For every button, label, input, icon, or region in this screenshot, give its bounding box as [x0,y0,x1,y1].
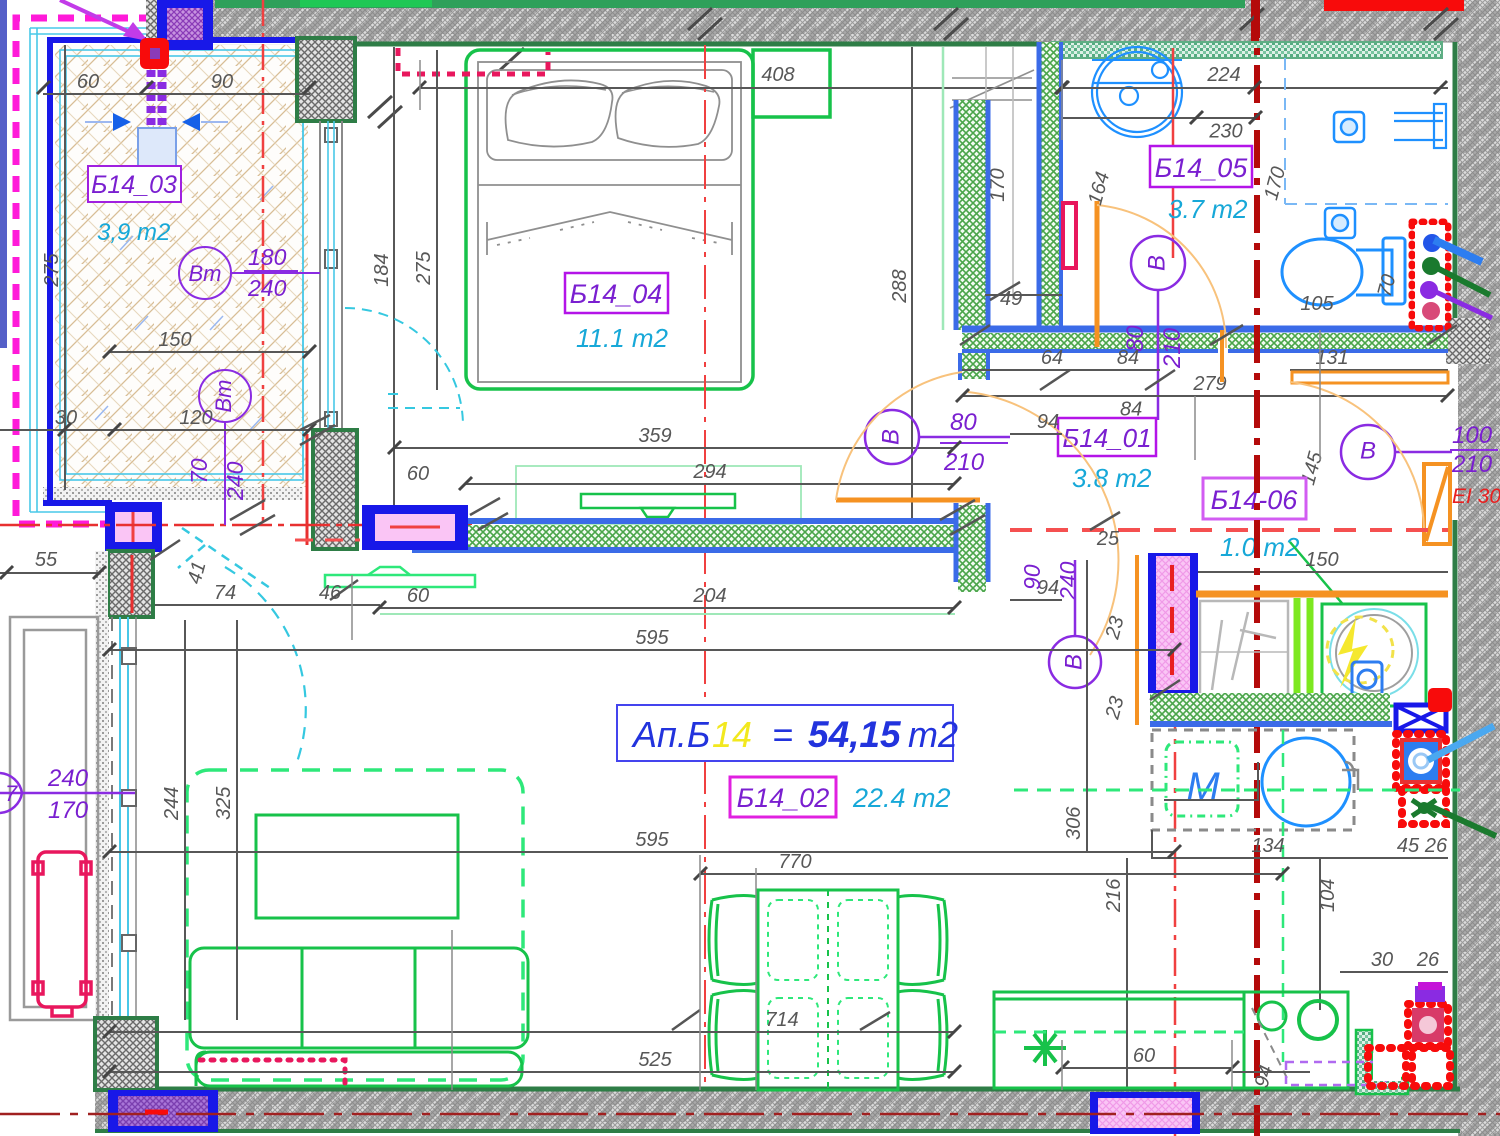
orange shelf right [1292,372,1448,383]
blue purple box bottom left [108,1090,218,1132]
dim 714 [110,1031,955,1033]
assorted dim ticks [103,81,1454,1078]
svg-text:60: 60 [1133,1045,1155,1067]
magenta dashed frame [16,18,155,524]
kitchen dashed mid line [994,1031,1244,1034]
red top bar [1324,0,1464,11]
red box flue [140,38,169,69]
red dashed line hall [1010,528,1448,532]
orange door leaf bathroom [1095,201,1100,347]
svg-text:3.8 m2: 3.8 m2 [1072,463,1152,493]
pink box bottom middle [1090,1092,1200,1134]
svg-text:240: 240 [222,461,248,501]
svg-text:45: 45 [1397,835,1420,857]
hob asterisk [1024,1030,1066,1066]
svg-text:Б14_03: Б14_03 [91,171,177,199]
dim 294 [466,483,955,485]
blue vent arrows [113,113,200,152]
red axis horizontal left [0,524,472,527]
label Б14_06 [1203,478,1306,519]
dim 74 46 [155,604,380,606]
balcony floor herringbone [55,45,308,487]
green dashed counter line [1014,789,1460,792]
svg-text:84: 84 [1117,347,1139,369]
svg-text:105: 105 [1300,293,1334,315]
svg-text:Б14_04: Б14_04 [570,279,663,309]
svg-text:770: 770 [778,851,811,873]
svg-text:70: 70 [186,458,212,484]
svg-text:595: 595 [635,627,669,649]
balcony stucco bottom band [43,487,303,500]
dark red axis horizontal bottom [0,1113,1500,1116]
entrance door arc [1290,382,1424,528]
bedroom green room outline [466,50,753,389]
balcony top wall speckle [146,44,310,62]
wall block balcony-bedroom bottom [313,430,357,549]
purple dashed column below red box [151,70,162,140]
washing machine Б14_06 [1322,604,1426,706]
svg-text:m2: m2 [908,714,958,755]
toilet [1282,238,1405,305]
red box top corner [1428,688,1452,712]
svg-text:64: 64 [1041,347,1063,369]
svg-text:90: 90 [1019,564,1045,590]
svg-text:240: 240 [47,765,89,792]
crimson heating pipe bedroom [398,48,548,74]
svg-text:26: 26 [1416,949,1440,971]
wall block balcony-bedroom top [297,38,355,121]
dim 49/64/84 cluster [985,294,1062,296]
top band tick clusters [368,8,1458,128]
dim 359 [395,447,955,449]
supply arrows lower right [1428,726,1494,760]
dim 150 [110,351,310,353]
carpet dashed living room [187,770,523,1080]
dim 60 / 90 top [43,93,310,95]
B circle bathroom [1131,236,1185,420]
wall block bottom left corner [95,1018,157,1090]
svg-text:Вт: Вт [211,380,236,413]
pillow 1 [506,80,613,146]
green hatch band below shower [1150,693,1392,724]
svg-text:M: M [1186,765,1220,809]
cyan lines left of balcony [30,28,160,512]
svg-text:150: 150 [1305,549,1338,571]
svg-text:275: 275 [41,252,63,287]
wall band bedroom-living: blue edges green hatch [412,521,963,550]
kitchen sink circle [1262,738,1350,826]
Вт circle 2 [199,370,251,525]
svg-text:204: 204 [692,585,726,607]
lime double bars [1297,598,1310,712]
dim 306 / 216 / 104 rotated [1086,560,1088,852]
Вт circle 1 [179,247,320,299]
svg-text:525: 525 [638,1049,672,1071]
dim 204 line [380,607,955,609]
label Б14_05 [1150,146,1252,187]
pillow 2 [616,81,720,147]
sofa [190,948,528,1086]
orange arc hall2 [968,392,1118,655]
red axis vertical bedroom [704,45,706,1090]
coffee table [256,815,458,918]
svg-text:120: 120 [179,407,212,429]
svg-text:11.1 m2: 11.1 m2 [576,323,669,353]
cyan door arc bedroom [345,308,463,426]
svg-text:714: 714 [765,1009,798,1031]
svg-text:275: 275 [413,250,435,285]
blue box pink fill balcony bottom [105,502,162,552]
grey cross block right of toilet wall [1446,318,1490,364]
svg-text:3,9 m2: 3,9 m2 [97,219,170,246]
svg-text:595: 595 [635,829,669,851]
orange line top of shower [1196,591,1448,598]
svg-text:60: 60 [77,71,99,93]
blue X box [1396,705,1446,731]
svg-text:325: 325 [213,786,235,820]
dim 30 26 bottom right [1340,971,1448,973]
dim 595 line (lower) [110,851,1175,853]
teal speckled band below top wall (bathrooms) [1052,42,1442,58]
svg-text:1.0 m2: 1.0 m2 [1220,532,1300,562]
red fixtures bottom right [1368,982,1450,1086]
bathroom west wall (hall side) [956,100,988,330]
svg-text:22.4 m2: 22.4 m2 [852,783,951,813]
svg-text:84: 84 [1120,399,1142,421]
B circle hall [865,410,1010,464]
svg-text:230: 230 [1208,121,1242,143]
svg-text:94: 94 [1037,411,1059,433]
kitchen counter bottom [994,992,1348,1088]
B circle right (entrance) [1341,425,1452,479]
svg-text:306: 306 [1063,806,1085,840]
svg-text:134: 134 [1251,835,1284,857]
dim 595 line (upper) [110,649,1175,651]
balcony blue slashes [95,166,273,430]
green corner wall right bottom [1356,1030,1408,1094]
dark red axis vertical [1254,0,1260,1136]
svg-text:14: 14 [712,714,752,755]
shower cabin glazing [1200,601,1288,703]
svg-text:240: 240 [247,275,287,301]
red axis sink [1172,48,1175,258]
balcony glazing frame blue [43,38,312,503]
shower dashed boundary toilet room [1285,58,1448,204]
pink door Б14_06 [1148,553,1198,693]
svg-text:30: 30 [55,407,77,429]
bathroom Б14_05 west wall [1039,42,1061,330]
svg-text:60: 60 [407,585,429,607]
kitchen M counter dashed outline [1152,730,1354,830]
svg-text:170: 170 [48,797,89,824]
orange door frame left of pink door [1135,555,1139,725]
svg-text:26: 26 [1424,835,1448,857]
dining table [758,890,898,1090]
svg-text:30: 30 [1371,949,1393,971]
outer wall right band [1458,0,1500,1136]
green top edge bar [215,0,1245,8]
dim 275 left [64,45,66,490]
M sink green dashed [1166,742,1238,816]
purple dashed box bottom [1286,1062,1386,1085]
entrance door EI30 orange [1424,464,1450,544]
left outer blue band [0,0,7,348]
blue box with purple hatch top [157,0,213,50]
shelf below band left [325,567,475,587]
svg-text:240: 240 [1055,561,1081,601]
magenta diagonal arrow top-left [60,0,148,41]
svg-text:54,15: 54,15 [808,714,902,755]
pale green line under 204 [380,613,955,615]
bathroom sink [1092,47,1182,137]
orange line hall [836,498,980,503]
svg-text:7: 7 [5,781,18,806]
crimson radiator bar bathroom [1063,203,1076,268]
svg-text:150: 150 [158,329,191,351]
svg-text:408: 408 [761,64,794,86]
dim 184 / 275 bedroom verticals [393,47,395,519]
left window wall living room [95,617,136,1022]
outer terrace frame left [10,617,98,1020]
label Б14_02 [730,777,836,817]
wall below bathrooms [962,329,1448,353]
radiator left [33,852,91,1016]
svg-text:104: 104 [1317,879,1339,912]
green closet box right of bedroom [753,50,830,117]
svg-text:359: 359 [638,425,671,447]
svg-text:210: 210 [1159,327,1186,369]
red dotted washer fixture [1396,734,1446,788]
dark red axis top segment [1251,0,1259,50]
circle 7 callout left [0,773,135,813]
svg-text:В: В [1360,437,1376,464]
red axis vertical balcony [262,0,265,522]
svg-text:90: 90 [211,71,233,93]
chairs [709,896,947,1080]
supply arrows right [1434,240,1492,318]
svg-text:184: 184 [371,253,393,286]
toilet room fixtures small blue squares [1325,112,1364,238]
wall step below band left end [960,353,988,380]
B circle lower hall [1049,560,1101,688]
dim 244 325 rotated [184,620,186,1020]
dim 224 / 230 [1063,87,1448,89]
svg-text:60: 60 [407,463,429,485]
svg-text:25: 25 [1096,528,1120,550]
svg-text:55: 55 [35,549,58,571]
orange arc hall [836,372,962,500]
svg-text:EI 30: EI 30 [1452,485,1500,508]
orange door arc bathroom [1097,205,1226,348]
cyan dashes small [178,528,270,588]
window between balcony and bedroom [320,121,342,430]
svg-text:Б14_05: Б14_05 [1155,153,1249,183]
label Б14_04 [565,273,668,313]
label Б14_01 [1058,418,1156,456]
wall green face line top [310,42,1038,47]
svg-text:210: 210 [1451,451,1493,478]
tick crosses detail [150,282,1457,1030]
svg-text:180: 180 [248,244,287,270]
svg-text:216: 216 [1103,878,1125,913]
crimson dotted heating sofa [200,1060,345,1090]
bathroom west wall lower block [956,503,988,592]
svg-text:В: В [877,429,904,445]
extension verticals grey [352,60,1320,1090]
outer wall bottom band [95,1089,1460,1132]
dim 150 [1196,571,1448,573]
blue box pink fill left of band [362,505,468,550]
svg-text:74: 74 [214,582,236,604]
dim 525 [110,1071,955,1073]
svg-text:=: = [772,714,793,755]
wall block below balcony left [108,551,153,617]
green leader arrow Б14_06 [1290,542,1389,659]
bed [478,62,741,382]
svg-text:В: В [1143,255,1170,271]
svg-text:288: 288 [889,269,911,303]
label Б14_03 [88,166,181,202]
grey countertop steps right [1152,762,1448,858]
svg-text:244: 244 [161,787,183,821]
dim 131 [1290,369,1448,371]
red dotted fixture right top [1412,222,1448,328]
dim 55 [0,572,100,574]
dim 94/90/240 cluster [1010,433,1062,435]
hatch block top-left above balcony [146,0,209,44]
svg-text:В: В [1060,654,1087,670]
svg-text:80: 80 [950,409,977,436]
svg-text:224: 224 [1206,64,1240,86]
dim ticks balcony [0,81,316,579]
outer wall top band [209,0,1458,42]
door swing dashes kitchen [1252,1008,1288,1080]
dim 30 / 120 [0,429,310,431]
right wall inner green line [1453,42,1458,345]
towel rail toilet [1394,104,1446,148]
svg-text:Б14_02: Б14_02 [737,783,830,813]
svg-text:294: 294 [692,461,726,483]
svg-text:3.7 m2: 3.7 m2 [1168,194,1248,224]
title box Ап.Б 14 = 54,15 m2 [617,705,958,761]
svg-text:Вт: Вт [189,261,222,286]
svg-text:Ап.Б: Ап.Б [631,714,710,755]
red dotted bolt fixture [1402,790,1446,824]
dim 60 94 bottom [1062,1067,1232,1069]
svg-text:100: 100 [1452,422,1493,449]
cyan door arc living room [225,567,306,762]
light red axis vertical kitchen [1174,556,1177,1136]
dim 408 [420,87,1062,89]
TV sideboard [581,494,735,517]
dim 288 vertical [911,47,913,520]
kitchen sink circles bottom [1258,1001,1337,1039]
wardrobe [943,47,1034,330]
dim 770 [700,873,1283,875]
